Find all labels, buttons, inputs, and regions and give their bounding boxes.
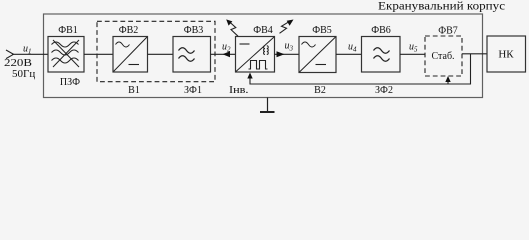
interference zigzag arrow top-right xyxy=(280,20,294,34)
wire input to FV1 xyxy=(12,53,48,55)
smoothing filter block FV3 (ZF1) xyxy=(173,25,211,72)
ground symbol xyxy=(260,98,275,113)
svg-text:ФВ2: ФВ2 xyxy=(119,25,139,36)
feedback line from output tap to inverter control xyxy=(247,54,470,84)
wire FV4 to FV5 xyxy=(275,53,300,55)
svg-text:ФВ6: ФВ6 xyxy=(371,25,391,36)
smoothing filter block FV6 (ZF2) xyxy=(362,25,401,72)
svg-text:В2: В2 xyxy=(314,85,326,96)
svg-text:В1: В1 xyxy=(128,85,140,96)
shielding enclosure box (Екранувальний корпус) xyxy=(44,1,506,98)
wire FV5 to FV6 xyxy=(336,53,362,55)
input source chevron arrow xyxy=(6,50,14,59)
interference zigzag arrow top-left xyxy=(226,19,238,36)
svg-text:Стаб.: Стаб. xyxy=(431,51,454,62)
dashed stabilizer box FV7 xyxy=(425,26,462,77)
svg-text:Екранувальний корпус: Екранувальний корпус xyxy=(378,1,505,13)
svg-text:Інв.: Інв. xyxy=(229,85,249,96)
svg-text:ФВ1: ФВ1 xyxy=(58,25,78,36)
svg-text:ФВ3: ФВ3 xyxy=(184,25,204,36)
svg-text:ФВ7: ФВ7 xyxy=(438,26,458,37)
wire FV1 to FV2 xyxy=(84,53,113,55)
load block NK xyxy=(487,36,526,72)
wire FV2 to FV3 xyxy=(148,53,174,55)
svg-text:50Гц: 50Гц xyxy=(12,68,35,80)
interference arrow right (forward) xyxy=(277,51,285,57)
interference arrow left (back-propagating) xyxy=(223,51,231,57)
dashed group box V1 + ZF1 xyxy=(97,21,215,81)
svg-text:ЗФ1: ЗФ1 xyxy=(184,85,202,96)
svg-text:ФВ5: ФВ5 xyxy=(312,25,332,36)
rectifier block FV2 (V1) xyxy=(113,25,148,72)
svg-text:ПЗФ: ПЗФ xyxy=(60,77,80,88)
inverter block FV4 (Inv.) xyxy=(236,25,275,72)
wire FV3 to FV4 xyxy=(211,53,236,55)
rectifier block FV5 (V2) xyxy=(299,25,336,73)
feedback branch arrow into FV7 xyxy=(445,76,450,84)
svg-text:ФВ4: ФВ4 xyxy=(253,25,273,36)
svg-text:НК: НК xyxy=(498,49,514,61)
svg-text:ЗФ2: ЗФ2 xyxy=(375,85,393,96)
wire Stab to NK xyxy=(462,53,487,55)
wire FV6 to FV7 xyxy=(400,53,425,55)
filter block FV1 (band-stop) xyxy=(48,25,84,72)
